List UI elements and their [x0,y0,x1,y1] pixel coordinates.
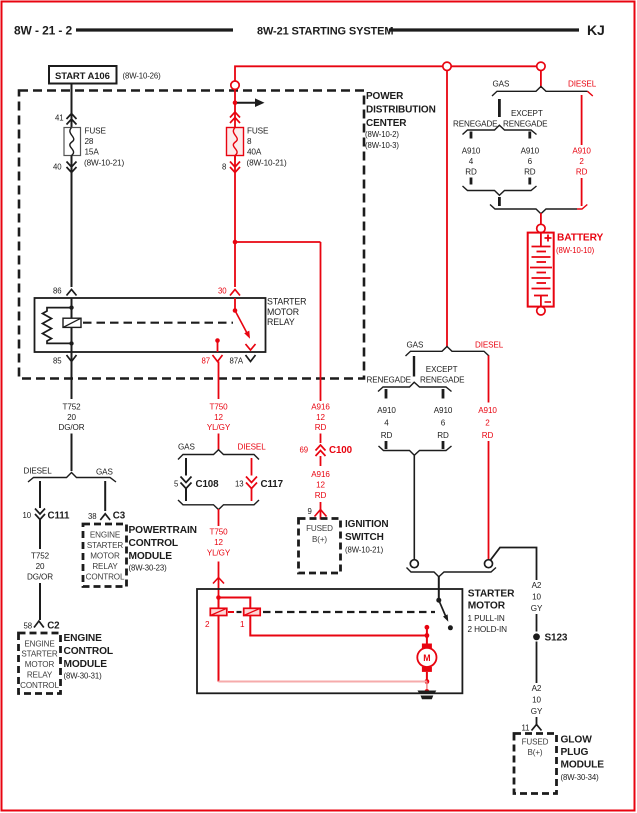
wire red from bus circle down (solenoid feed) [446,71,448,348]
svg-text:10: 10 [532,593,541,602]
wire GAS branch to C108 [185,458,187,476]
svg-text:STARTER: STARTER [87,541,123,550]
stub wire [498,197,501,206]
svg-text:8: 8 [247,137,252,146]
svg-text:(8W-10-2): (8W-10-2) [365,130,399,139]
svg-text:B(+): B(+) [312,535,327,544]
splice brace split RENEGADE/EXCEPT [378,382,452,391]
svg-text:1 PULL-IN: 1 PULL-IN [468,614,505,623]
svg-text:START A106: START A106 [55,71,110,82]
wire diesel A910 2 down [488,356,490,403]
svg-text:MODULE: MODULE [129,551,173,562]
wire to battery [540,213,542,225]
svg-text:GAS: GAS [178,443,195,452]
plus sign [545,235,552,242]
splice S123 [533,633,540,640]
svg-text:85: 85 [53,357,62,366]
svg-text:87: 87 [202,357,210,366]
svg-text:T750: T750 [210,528,229,537]
wire [251,489,253,502]
svg-text:2: 2 [205,620,210,629]
relay switch input wire [234,298,236,311]
svg-text:A910: A910 [377,406,396,415]
wire to ignition switch [320,502,322,520]
svg-text:BATTERY: BATTERY [557,233,603,244]
svg-text:CONTROL: CONTROL [20,681,59,690]
svg-text:38: 38 [88,512,96,521]
splice brace split GAS/DIESEL (solenoid feed) [406,347,490,357]
splice brace split GAS/DIESEL (battery feed) [492,87,588,97]
svg-text:12: 12 [316,413,325,422]
svg-text:DG/OR: DG/OR [59,423,85,432]
powertrain control module dashed box [83,524,127,587]
svg-text:6: 6 [528,157,533,166]
svg-text:RD: RD [482,431,494,440]
battery top terminal circle [537,224,545,232]
wire [536,642,538,684]
svg-text:12: 12 [316,481,325,490]
svg-text:DIESEL: DIESEL [475,341,504,350]
wire [185,489,187,502]
fuse F28 [64,128,81,156]
svg-text:12: 12 [214,413,223,422]
node circle bus left [443,62,451,70]
svg-text:ENGINE: ENGINE [64,633,103,644]
svg-text:A910: A910 [572,147,591,156]
svg-text:(8W-10-21): (8W-10-21) [84,159,124,168]
glow plug module dashed box [514,734,557,794]
pull-in winding 1 [244,608,261,615]
connector label START A106 [49,66,117,84]
svg-text:T750: T750 [210,403,229,412]
svg-text:A916: A916 [311,403,330,412]
node junction to A916 branch [233,240,238,245]
svg-text:RD: RD [315,423,327,432]
node coil bottom [69,341,73,345]
svg-text:DISTRIBUTION: DISTRIBUTION [366,105,436,116]
splice brace merge [178,500,259,510]
svg-text:MOTOR: MOTOR [468,601,506,612]
stub wires [470,132,473,139]
svg-text:GY: GY [531,707,543,716]
svg-text:DIESEL: DIESEL [24,467,53,476]
power distribution center dashed box [19,91,364,379]
svg-text:RD: RD [465,168,477,177]
wire [218,509,220,526]
relay actuation dashed link [83,322,233,324]
svg-text:MOTOR: MOTOR [267,307,299,317]
svg-text:KJ: KJ [587,22,605,38]
stub wires [385,389,388,399]
svg-text:A910: A910 [521,147,540,156]
wire into starter switch [438,576,440,600]
svg-text:(8W-10-10): (8W-10-10) [556,246,595,255]
svg-text:10: 10 [23,511,32,520]
stub wires below labels [470,178,473,185]
svg-text:GAS: GAS [493,80,510,89]
hold-in winding return rail (pink) [218,616,220,682]
engine control module dashed box [19,633,61,694]
svg-text:RD: RD [315,491,327,500]
fuse F8 [227,128,244,156]
diesel wire A910 2 [581,95,583,145]
svg-text:S123: S123 [545,633,568,644]
wire black fuse28 branch upper [71,84,73,128]
node circle bus right [537,62,545,70]
node coil top [69,305,73,309]
svg-text:T752: T752 [31,552,50,561]
svg-text:MODULE: MODULE [64,659,108,670]
svg-text:6: 6 [441,419,446,428]
svg-text:MODULE: MODULE [561,760,605,771]
svg-text:RD: RD [524,168,536,177]
wire T750 from relay pin 87 [218,362,220,400]
wire gas merged down to terminal [413,455,415,560]
hold-in winding 2 [210,608,227,615]
svg-text:(8W-10-21): (8W-10-21) [247,159,287,168]
svg-text:C2: C2 [47,621,60,632]
svg-text:1: 1 [240,620,245,629]
svg-text:SWITCH: SWITCH [345,532,384,543]
splice brace merge studs [407,568,497,577]
relay output 87 stub [215,338,220,343]
wire [536,614,538,632]
starter feed pin chevron [213,578,224,584]
wire [39,520,41,550]
relay coil branch wire [71,298,73,352]
svg-text:CONTROL: CONTROL [64,646,114,657]
svg-text:RD: RD [437,431,449,440]
svg-text:CONTROL: CONTROL [129,538,179,549]
minus sign [545,301,552,303]
svg-text:RENEGADE: RENEGADE [503,120,548,129]
svg-text:ENGINE: ENGINE [90,531,121,540]
splice brace split DIESEL/GAS [28,473,116,483]
wire T752 from relay pin 85 [71,352,73,399]
wire DIESEL branch [39,481,41,508]
svg-text:IGNITION: IGNITION [345,519,388,530]
svg-text:RELAY: RELAY [92,562,118,571]
svg-text:FUSED: FUSED [522,738,549,747]
wire red A916 down [320,242,322,401]
svg-text:CENTER: CENTER [366,118,407,129]
GAS stub wire [498,99,501,117]
svg-text:EXCEPT: EXCEPT [511,109,543,118]
GAS stub wire [413,356,415,377]
splice brace split RENEGADE/EXCEPT [463,125,537,134]
svg-text:RD: RD [381,431,393,440]
starter motor relay box [35,298,266,352]
svg-text:2: 2 [579,157,584,166]
svg-text:86: 86 [53,287,61,296]
wire [320,456,322,466]
wire DIESEL branch to C117 [251,458,253,476]
svg-text:A2: A2 [532,684,542,693]
svg-text:20: 20 [36,562,45,571]
svg-text:C117: C117 [261,479,284,490]
svg-text:GAS: GAS [407,341,424,350]
pull-in winding output wire [250,616,427,636]
svg-text:STARTER: STARTER [267,297,306,307]
svg-text:(8W-10-26): (8W-10-26) [123,72,162,81]
battery plates [532,246,551,248]
battery feed bus wire (red, top horizontal) [235,66,541,160]
svg-text:4: 4 [384,419,389,428]
wire [218,434,220,451]
svg-text:C111: C111 [48,511,71,522]
resistor (relay suppression) [43,308,72,344]
svg-text:20: 20 [67,413,76,422]
svg-text:30: 30 [218,287,227,296]
svg-text:MOTOR: MOTOR [90,552,120,561]
svg-text:4: 4 [469,157,474,166]
svg-text:(8W-30-23): (8W-30-23) [129,564,168,573]
svg-text:EXCEPT: EXCEPT [426,365,458,374]
svg-text:POWERTRAIN: POWERTRAIN [129,525,197,536]
node junction dot with arrow [233,100,238,105]
svg-text:C100: C100 [329,445,353,456]
svg-text:DG/OR: DG/OR [27,573,53,582]
svg-text:RENEGADE: RENEGADE [453,120,498,129]
svg-text:GLOW: GLOW [561,735,593,746]
svg-text:10: 10 [532,696,541,705]
svg-text:YL/GY: YL/GY [207,423,231,432]
svg-text:RELAY: RELAY [27,671,53,680]
wire to ground [426,682,428,692]
svg-text:DIESEL: DIESEL [238,443,267,452]
node circle on PDC border [231,81,239,89]
svg-text:15A: 15A [85,148,100,157]
svg-text:GAS: GAS [96,468,113,477]
svg-text:STARTER: STARTER [21,650,57,659]
svg-text:PLUG: PLUG [561,747,589,758]
wire red to battery brace [540,71,542,89]
splice brace merge with diesel [490,205,577,214]
solenoid feed node [216,595,221,600]
battery B1 [528,233,554,307]
red dash link between windings [228,611,234,613]
svg-text:RELAY: RELAY [267,317,295,327]
svg-text:(8W-10-3): (8W-10-3) [365,141,399,150]
svg-text:58: 58 [24,622,32,631]
svg-text:(8W-10-21): (8W-10-21) [345,546,384,555]
svg-text:12: 12 [214,538,223,547]
svg-text:11: 11 [522,724,530,733]
solenoid contact switch [436,598,441,603]
svg-text:C3: C3 [113,511,126,522]
starter stud terminal circles [410,560,418,568]
wire black fuse28 to relay pin 86 [71,156,73,288]
header rule right [389,28,579,31]
node at motor feed [425,625,430,630]
svg-text:8W-21 STARTING SYSTEM: 8W-21 STARTING SYSTEM [257,26,393,38]
battery bottom terminal circle [537,307,545,315]
wire A2 from stud up right [491,548,537,581]
svg-text:(8W-30-31): (8W-30-31) [64,672,103,681]
svg-text:B(+): B(+) [527,748,542,757]
svg-text:STARTER: STARTER [468,589,515,600]
svg-text:2 HOLD-IN: 2 HOLD-IN [468,625,508,634]
relay switch arm [235,311,248,335]
svg-text:A910: A910 [434,406,453,415]
svg-text:(8W-30-34): (8W-30-34) [561,773,600,782]
svg-text:40: 40 [53,163,62,172]
ignition switch dashed box [299,519,341,574]
svg-text:A2: A2 [532,581,542,590]
svg-text:8: 8 [222,163,226,172]
svg-text:87A: 87A [230,357,244,366]
svg-text:FUSE: FUSE [85,127,107,136]
svg-text:A916: A916 [311,470,330,479]
svg-text:T752: T752 [63,403,82,412]
motor to ground wire [426,672,428,682]
wire [71,434,73,472]
svg-text:MOTOR: MOTOR [25,660,55,669]
relay coil K1 [63,318,81,327]
svg-text:YL/GY: YL/GY [207,549,231,558]
svg-text:RENEGADE: RENEGADE [420,376,465,385]
svg-text:CONTROL: CONTROL [86,573,125,582]
svg-text:RD: RD [576,168,588,177]
wire into starter motor [218,562,220,598]
svg-text:69: 69 [300,446,308,455]
svg-text:POWER: POWER [366,91,404,102]
svg-text:C108: C108 [196,479,220,490]
svg-text:FUSE: FUSE [247,127,269,136]
svg-text:9: 9 [308,507,312,516]
svg-text:28: 28 [85,137,94,146]
wire red fuse8 to relay pin 30 [234,156,236,288]
svg-text:41: 41 [55,114,63,123]
svg-text:M: M [423,653,430,663]
svg-text:8W - 21 - 2: 8W - 21 - 2 [14,24,72,38]
motor M1 [422,644,432,649]
splice brace split GAS/DIESEL [178,450,259,460]
svg-text:GY: GY [531,604,543,613]
svg-text:A910: A910 [462,147,481,156]
header rule left [76,28,233,31]
pin 8 connector chevrons (red) on feed [230,112,240,123]
ground [418,691,437,695]
svg-text:A910: A910 [478,406,497,415]
wire to glow plug module [536,717,538,726]
svg-text:ENGINE: ENGINE [24,640,55,649]
svg-text:FUSED: FUSED [306,524,333,533]
svg-text:13: 13 [235,480,243,489]
svg-text:2: 2 [485,419,490,428]
wire [39,583,41,620]
splice brace merge renegade wires [463,186,537,195]
splice brace merge renegade [379,446,452,455]
starter motor box [197,589,462,693]
svg-text:40A: 40A [247,148,262,157]
svg-text:RENEGADE: RENEGADE [367,376,412,385]
svg-text:DIESEL: DIESEL [568,80,597,89]
stub wires below labels [385,441,388,449]
wire GAS branch [104,481,106,511]
dashed actuation link to contact [237,611,242,613]
